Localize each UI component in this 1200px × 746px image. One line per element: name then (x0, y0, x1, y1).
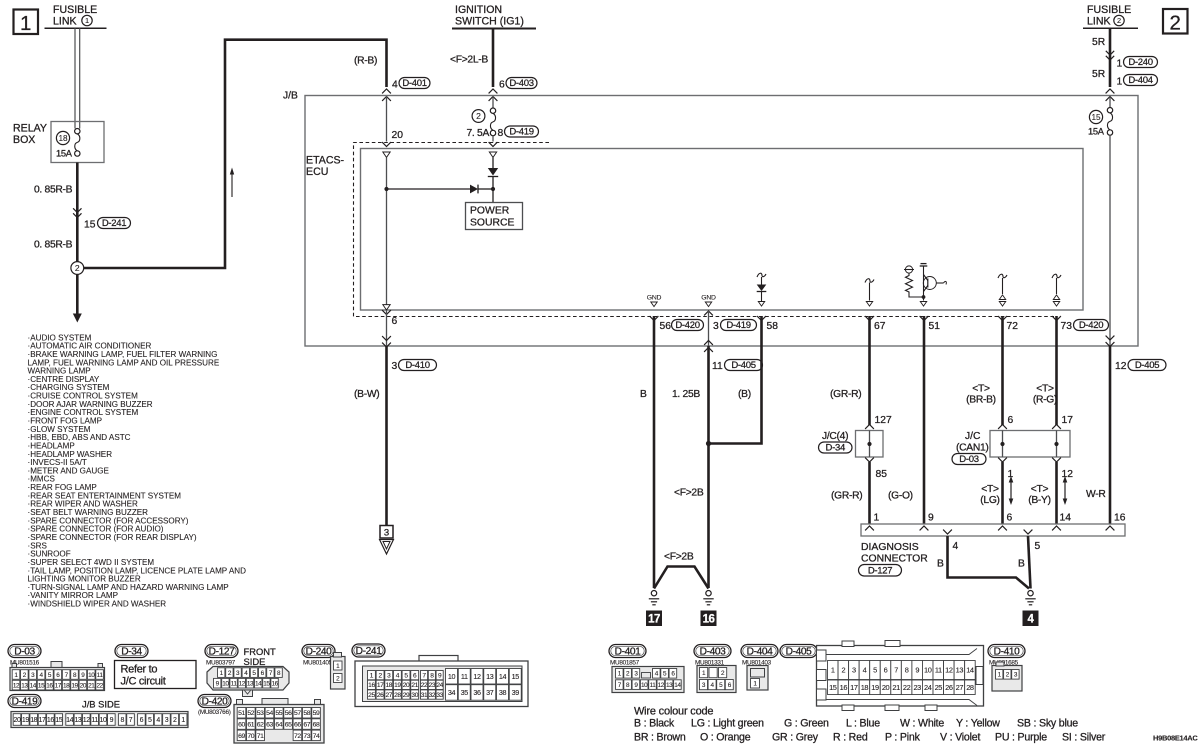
svg-text:18: 18 (58, 134, 68, 143)
svg-text:D-401: D-401 (615, 647, 641, 658)
svg-text:11: 11 (650, 682, 657, 689)
svg-text:16: 16 (840, 683, 848, 692)
svg-text:2: 2 (1169, 12, 1180, 35)
svg-text:MU803797: MU803797 (206, 660, 236, 667)
svg-text:SB : Sky blue: SB : Sky blue (1017, 718, 1078, 730)
svg-text:(R-B): (R-B) (354, 56, 377, 67)
svg-text:(G-O): (G-O) (888, 491, 913, 502)
svg-text:56: 56 (285, 710, 292, 717)
svg-text:54: 54 (266, 710, 273, 717)
svg-text:2: 2 (173, 717, 177, 724)
svg-text:D-419: D-419 (509, 126, 533, 137)
svg-text:10: 10 (641, 682, 648, 689)
svg-text:Refer to: Refer to (121, 664, 158, 676)
connector 6 D-403 into J/B (489, 89, 498, 93)
svg-text:B: B (1018, 559, 1025, 570)
svg-text:<T>: <T> (1031, 484, 1049, 495)
svg-text:3: 3 (165, 717, 169, 724)
svg-text:34: 34 (448, 688, 456, 697)
svg-text:1: 1 (181, 717, 185, 724)
svg-text:7: 7 (894, 666, 898, 675)
svg-text:B: B (937, 559, 944, 570)
svg-text:LG : Light green: LG : Light green (691, 718, 764, 730)
svg-text:FUSIBLE: FUSIBLE (53, 4, 97, 16)
internal coil on wire 67 (865, 279, 874, 283)
internal transistor circuit on wire 51 (905, 266, 912, 273)
svg-text:<F>2B: <F>2B (674, 488, 704, 499)
svg-text:12: 12 (1115, 361, 1127, 372)
svg-text:17: 17 (55, 682, 62, 689)
svg-text:D-03: D-03 (14, 647, 35, 658)
connector D-34 refer to J/C circuit (115, 645, 148, 658)
svg-text:LINK: LINK (53, 16, 77, 28)
svg-text:18: 18 (861, 683, 869, 692)
svg-text:29: 29 (403, 692, 410, 699)
svg-text:(LG): (LG) (980, 495, 999, 506)
svg-text:15: 15 (263, 681, 270, 688)
arrow up beside wire (231, 173, 233, 197)
svg-text:2: 2 (75, 263, 80, 273)
svg-text:85: 85 (876, 469, 888, 480)
svg-text:11: 11 (712, 361, 723, 372)
svg-text:13: 13 (666, 682, 673, 689)
svg-text:55: 55 (275, 710, 282, 717)
svg-text:D-420: D-420 (1079, 320, 1103, 331)
svg-text:0. 85R-B: 0. 85R-B (34, 185, 73, 196)
svg-text:14: 14 (966, 666, 974, 675)
svg-text:19: 19 (871, 683, 879, 692)
svg-text:15: 15 (84, 220, 96, 231)
ground 16 (706, 591, 711, 596)
wire: IG1 feed 2L-B (492, 29, 495, 88)
svg-text:L : Blue: L : Blue (846, 718, 880, 730)
svg-text:39: 39 (512, 688, 520, 697)
svg-text:15: 15 (38, 682, 45, 689)
svg-text:60: 60 (238, 721, 245, 728)
svg-text:D-127: D-127 (209, 647, 235, 658)
svg-text:(GR-R): (GR-R) (831, 491, 862, 502)
svg-text:15: 15 (55, 717, 62, 724)
svg-text:5: 5 (873, 666, 877, 675)
svg-text:DIAGNOSIS: DIAGNOSIS (861, 542, 919, 553)
svg-text:16: 16 (368, 682, 375, 689)
connector D-419 J/B side (8, 695, 41, 708)
svg-text:ECU: ECU (306, 166, 328, 178)
exit triangle bottom of pin 6 wire (383, 305, 390, 310)
svg-text:37: 37 (486, 688, 494, 697)
internal diode on wire 58 (757, 273, 766, 277)
wire CAN LG to diagnosis pin 6 (1001, 462, 1004, 524)
svg-text:6: 6 (392, 316, 398, 327)
wire: 20 inside J/B (386, 97, 388, 142)
connector D-03 (8, 645, 41, 658)
fuse 18 15A in relay box (56, 131, 69, 144)
bidirectional arrow LG (1010, 481, 1012, 500)
svg-text:4: 4 (156, 717, 160, 724)
svg-text:3: 3 (713, 321, 719, 332)
svg-text:24: 24 (924, 683, 932, 692)
svg-text:11: 11 (91, 717, 98, 724)
svg-text:19: 19 (394, 682, 401, 689)
svg-text:32: 32 (429, 692, 436, 699)
wire 56 D-420 (B) to ground 17 (650, 316, 659, 320)
svg-text:(CAN1): (CAN1) (956, 443, 989, 454)
svg-text:D-419: D-419 (726, 320, 750, 331)
svg-text:D-405: D-405 (786, 647, 812, 658)
relay box (51, 122, 104, 163)
svg-text:74: 74 (313, 733, 320, 740)
svg-text:57: 57 (294, 710, 301, 717)
svg-text:B: B (640, 389, 647, 400)
svg-text:SWITCH (IG1): SWITCH (IG1) (455, 16, 524, 28)
svg-text:15: 15 (829, 683, 837, 692)
wire: fusible link 1 double line (74, 28, 76, 128)
svg-text:MU801857: MU801857 (610, 660, 640, 667)
svg-text:7. 5A: 7. 5A (467, 128, 490, 139)
svg-text:21: 21 (892, 683, 900, 692)
svg-text:10: 10 (924, 666, 932, 675)
svg-text:1: 1 (831, 666, 835, 675)
sheet number box 1 (14, 10, 39, 35)
svg-text:17: 17 (1062, 415, 1074, 426)
svg-text:2: 2 (476, 111, 481, 121)
svg-text:SIDE: SIDE (244, 656, 266, 667)
svg-text:Wire colour code: Wire colour code (634, 706, 713, 718)
svg-text:8: 8 (120, 717, 124, 724)
svg-text:24: 24 (436, 682, 443, 689)
connector D-401 (609, 645, 646, 658)
svg-text:BOX: BOX (13, 134, 35, 146)
svg-text:18: 18 (385, 682, 392, 689)
wire 67 (GR-R) to J/C(4) (865, 316, 874, 320)
wire 72 CAN BR-B (998, 316, 1007, 320)
svg-text:31: 31 (421, 692, 428, 699)
svg-text:(B): (B) (738, 389, 751, 400)
svg-text:12: 12 (83, 717, 90, 724)
wire entries into ETACS top (382, 142, 391, 146)
svg-text:H9B08E14AC: H9B08E14AC (1153, 734, 1198, 743)
svg-text:16: 16 (47, 717, 54, 724)
svg-text:16: 16 (271, 681, 278, 688)
svg-text:13: 13 (486, 672, 494, 681)
bidirectional arrow B-Y (1064, 481, 1066, 500)
wire 1 (GR-R) to diagnosis pin 1 (868, 462, 871, 524)
connector D-241 (352, 644, 385, 657)
ground bridge 17/16 (654, 567, 709, 589)
svg-text:17: 17 (648, 614, 660, 626)
wire: 0.85R-B from relay box (76, 163, 79, 263)
svg-text:25: 25 (368, 692, 375, 699)
svg-text:59: 59 (313, 710, 320, 717)
svg-text:38: 38 (499, 688, 507, 697)
svg-text:14: 14 (30, 682, 37, 689)
svg-text:IGNITION: IGNITION (455, 4, 502, 16)
svg-text:G : Green: G : Green (784, 718, 829, 730)
svg-text:D-420: D-420 (675, 320, 699, 331)
svg-text:SOURCE: SOURCE (470, 218, 515, 229)
svg-text:D-127: D-127 (868, 565, 892, 576)
svg-text:(MU803766): (MU803766) (198, 709, 231, 716)
svg-text:3: 3 (392, 361, 398, 372)
svg-text:22: 22 (903, 683, 911, 692)
svg-text:R : Red: R : Red (833, 732, 868, 744)
svg-text:CONNECTOR: CONNECTOR (861, 554, 928, 565)
svg-text:53: 53 (257, 710, 264, 717)
svg-text:D-405: D-405 (1135, 360, 1159, 371)
connector D-420 (198, 695, 231, 708)
power source box (466, 203, 523, 230)
svg-text:58: 58 (303, 710, 310, 717)
svg-text:GND: GND (647, 295, 662, 302)
svg-text:BR : Brown: BR : Brown (634, 732, 686, 744)
svg-text:D-03: D-03 (959, 454, 978, 465)
internal CAN terminator wire 73 (1052, 274, 1061, 278)
svg-text:14: 14 (66, 717, 73, 724)
svg-text:O : Orange: O : Orange (700, 732, 751, 744)
connector D-405 (780, 645, 817, 658)
svg-text:73: 73 (303, 733, 310, 740)
svg-text:(BR-B): (BR-B) (966, 395, 996, 406)
svg-text:5: 5 (1035, 541, 1041, 552)
svg-text:RELAY: RELAY (13, 123, 47, 135)
svg-text:20: 20 (392, 130, 404, 141)
svg-text:67: 67 (874, 321, 886, 332)
svg-text:GND: GND (701, 295, 716, 302)
svg-text:12: 12 (1062, 469, 1074, 480)
svg-text:·WINDSHIELD WIPER AND WASHER: ·WINDSHIELD WIPER AND WASHER (28, 600, 167, 609)
svg-text:23: 23 (913, 683, 921, 692)
svg-text:D-419: D-419 (12, 697, 38, 708)
svg-text:72: 72 (1007, 321, 1019, 332)
svg-text:22: 22 (421, 682, 428, 689)
svg-text:6: 6 (1008, 415, 1014, 426)
wire diagnosis pin 4 B to ground 4 (948, 536, 1030, 589)
svg-text:(R-G): (R-G) (1033, 395, 1057, 406)
wire 51 (G-O) to diagnosis pin 9 (920, 316, 929, 320)
svg-text:22: 22 (96, 682, 103, 689)
svg-text:16: 16 (46, 682, 53, 689)
svg-text:61: 61 (247, 721, 254, 728)
svg-text:62: 62 (257, 721, 264, 728)
svg-text:D-403: D-403 (700, 647, 726, 658)
svg-text:1: 1 (1117, 59, 1123, 70)
svg-text:69: 69 (238, 733, 245, 740)
svg-text:PU : Purple: PU : Purple (995, 732, 1047, 744)
svg-text:POWER: POWER (470, 206, 510, 217)
svg-text:66: 66 (294, 721, 301, 728)
svg-text:12: 12 (658, 682, 665, 689)
svg-text:70: 70 (247, 733, 254, 740)
svg-text:D-34: D-34 (826, 442, 845, 453)
svg-text:<T>: <T> (1036, 384, 1054, 395)
connector 1 D-240 inline (1106, 51, 1114, 55)
wire 5R from fusible link 2 (1109, 28, 1112, 87)
svg-text:28: 28 (394, 692, 401, 699)
svg-text:(B-Y): (B-Y) (1028, 495, 1051, 506)
svg-text:FUSIBLE: FUSIBLE (1087, 4, 1131, 16)
svg-text:B : Black: B : Black (634, 718, 675, 730)
svg-text:21: 21 (88, 682, 95, 689)
svg-text:<F>2B: <F>2B (664, 552, 694, 563)
svg-text:36: 36 (473, 688, 481, 697)
svg-text:6: 6 (140, 717, 144, 724)
svg-text:21: 21 (411, 682, 418, 689)
svg-text:13: 13 (74, 717, 81, 724)
svg-text:1: 1 (874, 513, 880, 524)
svg-text:10: 10 (88, 672, 95, 679)
svg-text:4: 4 (863, 666, 867, 675)
svg-text:14: 14 (255, 681, 262, 688)
diagnosis connector box D-127 (861, 524, 1125, 536)
svg-text:J/B SIDE: J/B SIDE (82, 699, 120, 710)
svg-text:2: 2 (841, 666, 845, 675)
svg-text:20: 20 (80, 682, 87, 689)
wire 58 (B) joining wire 11 (757, 316, 766, 320)
svg-text:10: 10 (222, 681, 229, 688)
svg-text:33: 33 (436, 692, 443, 699)
svg-text:D-401: D-401 (402, 78, 426, 89)
svg-text:51: 51 (929, 321, 941, 332)
fuse 2 7.5A inside J/B (492, 97, 494, 109)
wire 12 D-405 W-R to diagnosis pin 16 (1109, 135, 1111, 346)
internal CAN terminator wire 72 (998, 274, 1007, 278)
svg-text:D-241: D-241 (102, 218, 126, 229)
svg-text:4: 4 (392, 80, 398, 91)
svg-text:<F>2L-B: <F>2L-B (450, 55, 488, 66)
svg-text:P : Pink: P : Pink (885, 732, 921, 744)
svg-text:5R: 5R (1092, 37, 1105, 48)
svg-text:D-240: D-240 (306, 647, 332, 658)
svg-text:SI : Silver: SI : Silver (1062, 732, 1106, 744)
svg-text:3: 3 (852, 666, 856, 675)
svg-text:15: 15 (1091, 113, 1101, 122)
svg-text:56: 56 (660, 321, 672, 332)
svg-text:8: 8 (498, 128, 504, 139)
svg-text:<T>: <T> (981, 484, 999, 495)
wire diagnosis pin 5 B to ground 4 (1028, 536, 1031, 589)
wire CAN B-Y to diagnosis pin 14 (1055, 462, 1058, 524)
svg-text:11: 11 (935, 666, 942, 675)
svg-text:9: 9 (928, 513, 934, 524)
connector D-127 (205, 645, 238, 658)
svg-text:W-R: W-R (1086, 489, 1106, 500)
svg-text:14: 14 (1060, 513, 1072, 524)
svg-text:5: 5 (148, 717, 152, 724)
svg-text:16: 16 (1114, 513, 1126, 524)
svg-text:13: 13 (247, 681, 254, 688)
svg-text:17: 17 (39, 717, 46, 724)
svg-text:(GR-R): (GR-R) (830, 389, 861, 400)
connector D-410 (988, 645, 1025, 658)
svg-text:15A: 15A (56, 149, 73, 159)
svg-text:12: 12 (13, 682, 20, 689)
svg-text:D-404: D-404 (747, 647, 773, 658)
svg-text:6: 6 (499, 80, 505, 91)
wire 3 D-419 / 11 D-405 (1.25B) to ground 16 (704, 311, 713, 315)
svg-text:11: 11 (97, 672, 104, 679)
svg-text:D-403: D-403 (509, 78, 533, 89)
svg-text:J/C circuit: J/C circuit (121, 676, 166, 688)
svg-text:20: 20 (403, 682, 410, 689)
svg-text:1: 1 (85, 16, 89, 25)
svg-text:28: 28 (966, 683, 974, 692)
svg-text:71: 71 (257, 733, 264, 740)
svg-text:5R: 5R (1092, 69, 1105, 80)
wire 73 CAN R-G (1052, 316, 1061, 320)
ground 4 (1028, 591, 1033, 596)
svg-text:17: 17 (850, 683, 858, 692)
svg-text:26: 26 (377, 692, 384, 699)
svg-text:Y : Yellow: Y : Yellow (956, 718, 1000, 730)
svg-text:16: 16 (703, 614, 715, 626)
svg-text:67: 67 (303, 721, 310, 728)
svg-text:72: 72 (294, 733, 301, 740)
wire: main feed from node 2 up and over to J/B (84, 40, 387, 268)
ETACS inner box (361, 149, 1084, 311)
svg-text:19: 19 (71, 682, 78, 689)
svg-text:LINK: LINK (1087, 16, 1111, 28)
svg-text:25: 25 (935, 683, 943, 692)
svg-text:1: 1 (20, 12, 31, 35)
svg-text:<T>: <T> (972, 384, 990, 395)
svg-text:26: 26 (945, 683, 953, 692)
svg-text:J/C: J/C (965, 431, 981, 442)
sheet number box 2 (1163, 9, 1188, 34)
svg-text:MU801405: MU801405 (303, 660, 333, 667)
svg-text:D-410: D-410 (994, 647, 1020, 658)
svg-text:6: 6 (1007, 513, 1013, 524)
connector D-404 (741, 645, 778, 658)
svg-text:12: 12 (945, 666, 953, 675)
svg-text:D-404: D-404 (1128, 75, 1152, 86)
svg-text:73: 73 (1061, 321, 1073, 332)
svg-text:0. 85R-B: 0. 85R-B (34, 240, 73, 251)
svg-text:58: 58 (767, 321, 779, 332)
svg-text:D-34: D-34 (121, 647, 142, 658)
svg-text:4: 4 (953, 541, 959, 552)
node 2 junction circle (71, 262, 84, 275)
svg-text:9: 9 (915, 666, 919, 675)
svg-text:10: 10 (100, 717, 107, 724)
svg-text:23: 23 (429, 682, 436, 689)
ETACS-ECU dashed boundary (354, 143, 1055, 317)
svg-text:ETACS-: ETACS- (306, 155, 345, 167)
svg-text:65: 65 (285, 721, 292, 728)
svg-text:(B-W): (B-W) (354, 389, 379, 400)
node: system list fed by relay circuit (28, 333, 247, 608)
svg-text:12: 12 (473, 672, 481, 681)
svg-text:20: 20 (882, 683, 890, 692)
svg-text:V : Violet: V : Violet (940, 732, 980, 744)
svg-text:14: 14 (499, 672, 507, 681)
connector D-403 (694, 645, 731, 658)
svg-text:·SPARE CONNECTOR (FOR REAR DIS: ·SPARE CONNECTOR (FOR REAR DISPLAY) (28, 533, 197, 542)
svg-text:10: 10 (448, 672, 456, 681)
svg-text:27: 27 (385, 692, 392, 699)
svg-text:17: 17 (377, 682, 384, 689)
svg-text:1: 1 (1117, 77, 1123, 88)
svg-text:18: 18 (63, 682, 70, 689)
svg-text:J/C(4): J/C(4) (822, 431, 848, 442)
svg-text:D-410: D-410 (405, 360, 429, 371)
connector D-240 (302, 645, 335, 658)
svg-text:51: 51 (238, 710, 245, 717)
svg-text:15A: 15A (1088, 127, 1105, 137)
internal wire with diode from pin 20 branch (386, 158, 388, 305)
svg-text:127: 127 (875, 415, 892, 426)
svg-text:8: 8 (905, 666, 909, 675)
svg-text:J/B: J/B (283, 91, 298, 102)
